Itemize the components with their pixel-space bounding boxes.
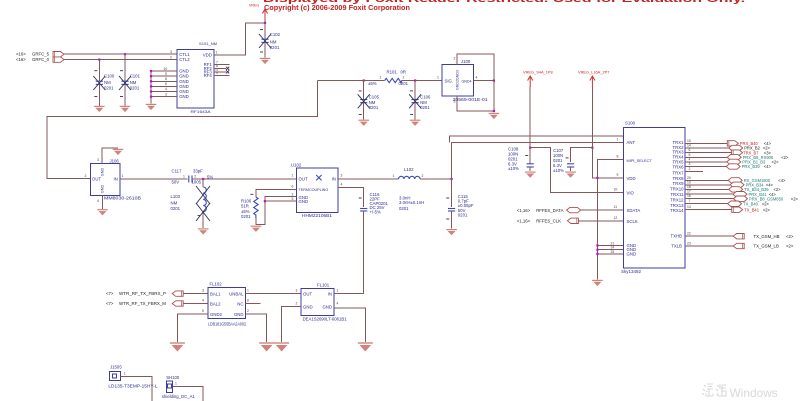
svg-text:<4>: <4> (778, 178, 786, 183)
power VREG_S4A_1P8 (523, 70, 553, 88)
svg-text:NM: NM (171, 200, 178, 205)
ground J106 pin3 (113, 149, 124, 155)
resistor R106 (241, 194, 258, 219)
svg-text:J1505: J1505 (110, 364, 122, 369)
wire FL102 UNBAL to FL101 (246, 293, 301, 295)
ground J106 pin4 (97, 210, 108, 216)
shield connector SH100 (162, 375, 196, 399)
wire GRFC_0 to CTL2 (64, 59, 177, 61)
svg-text:OUT: OUT (303, 292, 312, 297)
wire GRFC_5 to CTL1 (64, 53, 177, 55)
svg-text:3: 3 (454, 100, 456, 104)
capacitor C106 (409, 81, 431, 120)
svg-text:WTR_RF_TX_FBRX_M: WTR_RF_TX_FBRX_M (119, 301, 166, 306)
svg-text:SH100: SH100 (166, 375, 180, 380)
svg-text:TX_GSM_HB: TX_GSM_HB (754, 234, 780, 239)
svg-text:<2>: <2> (786, 234, 794, 239)
svg-text:GND: GND (322, 304, 332, 309)
svg-text:4: 4 (337, 301, 339, 305)
connector J100 (437, 56, 488, 103)
wire TRX10 / port TX_B34_B39 (685, 187, 781, 192)
port WTR_RF_TX_FBRX_P (106, 288, 208, 296)
power VREG (top, cut by watermark) (249, 4, 268, 24)
svg-text:1: 1 (247, 288, 249, 292)
svg-text:1: 1 (124, 372, 126, 376)
port RFFES_DATA (517, 207, 624, 213)
svg-text:4: 4 (476, 76, 478, 80)
wire FL102 NC stub (246, 303, 261, 305)
balun FL102 (202, 282, 249, 327)
filter FL101 (296, 282, 348, 321)
svg-text:0201: 0201 (171, 206, 181, 211)
svg-text:2: 2 (170, 55, 172, 59)
wire MIPI_SELECT jumper (597, 160, 623, 178)
svg-text:25: 25 (611, 250, 615, 254)
wire TRX8 / port RX_GSM1800 (685, 178, 786, 183)
svg-text:3.0nH±0.1nH: 3.0nH±0.1nH (399, 200, 424, 205)
svg-text:NM: NM (104, 80, 111, 85)
wire FL102 GND2 to ground (177, 314, 208, 342)
svg-text:R106: R106 (241, 198, 252, 203)
svg-text:±5%: ±5% (241, 209, 250, 214)
svg-text:<2>: <2> (786, 244, 794, 249)
node junction VDD/C102 (264, 22, 266, 24)
svg-text:IN: IN (328, 292, 332, 297)
svg-text:±10%: ±10% (508, 166, 519, 171)
svg-text:GND: GND (179, 94, 189, 99)
ground FL101 right GND (358, 343, 373, 352)
wire C115 junction up to ANT line (452, 143, 624, 179)
svg-text:NM: NM (270, 40, 277, 45)
svg-text:<2>: <2> (763, 207, 771, 212)
wire SH100 down (172, 387, 203, 401)
svg-text:Copyright (c) 2006-2009 Foxit: Copyright (c) 2006-2009 Foxit Corporatio… (264, 3, 410, 12)
svg-text:S101_NM: S101_NM (199, 41, 217, 46)
svg-text:C117: C117 (172, 168, 183, 173)
wire TRX1 / port PRX_B40 (685, 141, 771, 146)
svg-text:2: 2 (454, 56, 456, 60)
S100 TRX pin labels (670, 139, 691, 249)
svg-text:<16>: <16> (16, 57, 26, 62)
port RFFES_CLK (517, 218, 624, 224)
svg-text:3: 3 (97, 158, 99, 162)
wire FL101 left GND to ground (282, 307, 301, 343)
ground C107 (565, 172, 576, 178)
svg-text:SIG.: SIG. (445, 79, 454, 84)
connector J106 (85, 158, 142, 203)
resistor R101 chain: junction C105 (363, 79, 365, 81)
svg-text:PRX_B39: PRX_B39 (742, 164, 761, 169)
wire TXLB / port TX_GSM_LB (685, 243, 794, 248)
wire J100 pin4 (474, 80, 494, 82)
svg-text:RFFES_CLK: RFFES_CLK (536, 219, 561, 224)
svg-text:11: 11 (614, 205, 618, 209)
wire J106 pin4 stub (102, 195, 104, 209)
wire S101 RF3 stub with no-connect X (214, 70, 229, 73)
IC S100 Sky13492 (611, 121, 686, 275)
wire S101 RF1 stub (214, 64, 230, 66)
node junction L103 (202, 178, 204, 180)
ground C101 (120, 106, 131, 112)
svg-text:5: 5 (292, 197, 294, 201)
svg-text:3: 3 (165, 92, 167, 96)
svg-text:0201: 0201 (399, 81, 409, 86)
inductor L102 (338, 167, 452, 211)
svg-text:Windows: Windows (730, 386, 778, 400)
svg-text:13: 13 (687, 205, 691, 209)
wire S100 gnd bus (597, 178, 623, 280)
node gnd bus junctions (596, 244, 598, 255)
svg-text:1: 1 (393, 174, 395, 178)
wire TRX7 stub (685, 170, 703, 172)
svg-text:19: 19 (687, 180, 691, 184)
svg-text:3: 3 (689, 162, 691, 166)
svg-text:6: 6 (689, 148, 691, 152)
watermark: copyright line (264, 3, 410, 12)
svg-text:TRX11: TRX11 (670, 192, 684, 197)
capacitor C116 (359, 192, 389, 214)
svg-text:0201: 0201 (130, 86, 140, 91)
svg-text:TXHB: TXHB (671, 234, 683, 239)
wire TRX14 / port TX_B41 (685, 207, 771, 212)
svg-text:2: 2 (403, 76, 405, 80)
wire U102 pin4 to C116 (338, 187, 364, 206)
watermark: cut-off top line "Displayed by..." (263, 0, 745, 5)
wire TRX3 / port TRX_B7 (685, 150, 771, 155)
svg-text:SDATA: SDATA (627, 208, 641, 213)
svg-text:NM: NM (130, 80, 137, 85)
svg-text:ANT: ANT (627, 140, 636, 145)
svg-text:33pF: 33pF (193, 168, 203, 173)
node junction C100 on GRFC_0 (98, 59, 100, 61)
svg-text:WTR_RF_TX_FBRX_P: WTR_RF_TX_FBRX_P (119, 291, 166, 296)
svg-text:CTL2: CTL2 (179, 57, 190, 62)
svg-text:HHM22106B1: HHM22106B1 (302, 213, 333, 218)
svg-text:GRFC_5: GRFC_5 (32, 51, 50, 56)
wire TRX9 / port PRX_B34 (685, 182, 773, 187)
node junction C106 (414, 79, 416, 81)
svg-text:C105: C105 (369, 95, 380, 100)
wire R106 bottom / U102 gnd pins (256, 197, 297, 225)
svg-text:20: 20 (687, 176, 691, 180)
svg-text:3: 3 (170, 50, 172, 54)
svg-text:2: 2 (689, 167, 691, 171)
svg-text:8: 8 (617, 155, 619, 159)
wire TRX12 / port PRX_B8_GSM850 (685, 196, 798, 201)
wire C116 to FL101 IN (334, 211, 364, 293)
wire J1505 down (121, 376, 153, 401)
svg-text:GND: GND (100, 168, 104, 177)
svg-text:23: 23 (687, 242, 691, 246)
svg-text:R101: R101 (387, 69, 398, 74)
svg-text:14: 14 (687, 144, 691, 148)
svg-text:<2>: <2> (791, 196, 799, 201)
ground L103 (198, 229, 209, 235)
wire TRX2 / port PRX_B2 (685, 145, 771, 150)
svg-text:10: 10 (614, 188, 618, 192)
node junction J100 right (493, 80, 495, 82)
node junction U102 gnd (264, 200, 266, 202)
wire upper parallel line to S100 (449, 136, 623, 143)
svg-text:<2>: <2> (781, 155, 789, 160)
svg-text:6: 6 (247, 298, 249, 302)
svg-text:9: 9 (617, 173, 619, 177)
wire TXHB / port TX_GSM_HB (685, 234, 794, 239)
svg-text:J106: J106 (110, 159, 120, 164)
svg-text:4: 4 (97, 199, 99, 203)
wire FL102 GND to ground (246, 314, 267, 342)
svg-text:17: 17 (687, 190, 691, 194)
wire J106 IN to C117 (120, 178, 188, 180)
svg-text:<7>: <7> (106, 291, 114, 296)
svg-text:UNBAL: UNBAL (229, 292, 244, 297)
svg-text:TX_GSM_LB: TX_GSM_LB (754, 244, 779, 249)
svg-text:1: 1 (292, 174, 294, 178)
svg-text:TRX10: TRX10 (670, 187, 684, 192)
svg-text:GRFC_0: GRFC_0 (32, 57, 50, 62)
svg-text:4: 4 (165, 87, 167, 91)
svg-text:5: 5 (689, 153, 691, 157)
wire TRX11 / port PRX_B41 (685, 192, 776, 197)
svg-text:OUT: OUT (299, 177, 308, 182)
connector J1505 (108, 364, 158, 388)
svg-text:0201: 0201 (104, 86, 114, 91)
wire J100 pin3 loop (457, 81, 494, 111)
svg-text:15: 15 (687, 139, 691, 143)
svg-text:VREG_L16A_2P7: VREG_L16A_2P7 (578, 70, 609, 75)
ground J100 (489, 113, 500, 119)
wire S101 RF2 stub with no-connect X (214, 67, 229, 70)
svg-text:TERMCOUPLING: TERMCOUPLING (299, 188, 329, 192)
svg-text:1: 1 (337, 288, 339, 292)
svg-text:GND: GND (100, 185, 104, 194)
svg-text:NC: NC (237, 301, 243, 306)
svg-text:LD135-T3EMP-15HY-L: LD135-T3EMP-15HY-L (108, 384, 158, 389)
switch S101 (164, 41, 219, 114)
svg-text:22: 22 (687, 232, 691, 236)
node junction VREG_S4A (529, 147, 531, 149)
svg-text:Sky13492: Sky13492 (621, 269, 642, 274)
svg-text:TRX7: TRX7 (673, 171, 685, 176)
wire S101 GND bus (151, 71, 177, 103)
node GND bus junctions (150, 70, 152, 98)
svg-text:2: 2 (247, 309, 249, 313)
svg-text:0201: 0201 (270, 45, 280, 50)
capacitor C102 (259, 23, 281, 58)
wire TRX13 / port TX_B40 (685, 201, 770, 206)
svg-text:LDB181G55BAA2A002: LDB181G55BAA2A002 (208, 321, 247, 326)
capacitor C115 (446, 179, 474, 229)
wire VDD feed (592, 148, 623, 178)
svg-text:OUT: OUT (92, 177, 101, 182)
capacitor C107 (553, 148, 574, 173)
svg-text:TRX9: TRX9 (673, 181, 685, 186)
node junction VREG_L16A (591, 147, 593, 149)
svg-text:2: 2 (296, 301, 298, 305)
power VREG_L16A_2P7 (578, 70, 609, 88)
svg-text:0201: 0201 (420, 105, 430, 110)
svg-text:TX_B41: TX_B41 (744, 207, 760, 212)
svg-text:12: 12 (614, 216, 618, 220)
svg-text:6: 6 (292, 184, 294, 188)
svg-text:1: 1 (122, 174, 124, 178)
svg-text:0R: 0R (401, 69, 407, 74)
ground C108 (525, 172, 536, 178)
svg-text:2: 2 (85, 174, 87, 178)
svg-text:4: 4 (689, 157, 691, 161)
svg-text:1: 1 (437, 76, 439, 80)
svg-text:VREG: VREG (249, 4, 259, 8)
node junction C115 (451, 178, 453, 180)
svg-text:C101: C101 (130, 74, 141, 79)
svg-text:RF4: RF4 (204, 73, 213, 78)
svg-text:IN: IN (113, 177, 117, 182)
svg-text:<7>: <7> (106, 301, 114, 306)
ground FL102 GND2 (170, 343, 185, 352)
svg-text:0201: 0201 (369, 105, 379, 110)
svg-text:GND2: GND2 (210, 312, 223, 317)
capacitor C108 (508, 147, 534, 172)
svg-text:TXLB: TXLB (671, 244, 682, 249)
ground FL101 left GND (274, 343, 289, 352)
wire S101 RF4 stub (214, 74, 230, 76)
port GRFC_0 (16, 57, 64, 62)
wire J100 pin2 loop (457, 54, 494, 80)
svg-text:SCLK: SCLK (627, 219, 638, 224)
capacitor C101 (119, 54, 141, 106)
svg-text:±5%: ±5% (368, 81, 377, 86)
ground C100 (94, 106, 105, 112)
svg-text:5: 5 (165, 72, 167, 76)
svg-text:51R: 51R (241, 204, 249, 209)
svg-text:DEA1S2690LT-6061B1: DEA1S2690LT-6061B1 (303, 317, 348, 322)
svg-text:TX_B40: TX_B40 (743, 201, 759, 206)
wire FL101 right GND to ground (334, 308, 365, 342)
svg-text:GND: GND (234, 312, 244, 317)
svg-text:TRX14: TRX14 (670, 208, 684, 213)
coupler U102 (291, 162, 343, 218)
capacitor C105 (358, 81, 380, 120)
svg-text:4: 4 (202, 298, 204, 302)
wire TRX6 / port PRX_B39 (685, 164, 771, 169)
svg-text:50V: 50V (172, 179, 180, 184)
svg-text:2: 2 (292, 193, 294, 197)
ground C102 (260, 58, 271, 64)
wire TRX4 / port PRX_B8_RX900 (685, 155, 789, 160)
svg-text:MIPI_SELECT: MIPI_SELECT (627, 158, 653, 163)
wire VREG_S4A down (529, 87, 531, 148)
svg-text:0201: 0201 (241, 214, 251, 219)
svg-text:20569-001E-01: 20569-001E-01 (453, 97, 489, 102)
svg-text:7: 7 (689, 199, 691, 203)
svg-text:IN: IN (332, 177, 336, 182)
svg-text:<2>: <2> (762, 201, 770, 206)
svg-text:C100: C100 (104, 74, 115, 79)
svg-text:J100: J100 (461, 59, 471, 64)
svg-text:RFFES_DATA: RFFES_DATA (536, 208, 563, 213)
capacitor C117 (172, 168, 214, 184)
svg-text:2: 2 (194, 174, 196, 178)
svg-text:<1,16>: <1,16> (517, 219, 531, 224)
watermark: activate Windows (702, 384, 778, 400)
svg-text:RF1643A: RF1643A (191, 109, 211, 114)
svg-text:GND: GND (627, 251, 637, 256)
node junction J100 bottom (493, 110, 495, 112)
svg-text:VDD: VDD (627, 176, 636, 181)
svg-text:1: 1 (175, 381, 177, 385)
svg-text:TRX6: TRX6 (673, 165, 685, 170)
ground FL102 GND (259, 343, 274, 352)
svg-text:16: 16 (687, 194, 691, 198)
capacitor C100 (93, 60, 115, 106)
svg-text:±10%: ±10% (553, 168, 564, 173)
svg-text:GND4: GND4 (462, 79, 472, 83)
svg-text:1: 1 (216, 51, 218, 55)
svg-text:0201: 0201 (458, 212, 468, 217)
ground C115 (446, 230, 457, 236)
svg-text:1: 1 (380, 76, 382, 80)
svg-text:S100: S100 (625, 121, 636, 126)
svg-text:0201: 0201 (399, 206, 409, 211)
svg-text:CTL1: CTL1 (179, 52, 190, 57)
svg-text:<16>: <16> (16, 51, 26, 56)
svg-text:<1,16>: <1,16> (517, 208, 531, 213)
svg-text:1: 1 (183, 174, 185, 178)
ground R106 (251, 226, 262, 232)
svg-text:+/-5%: +/-5% (370, 210, 382, 215)
wire TRX5 / port PRX_B1_B3 (685, 159, 779, 164)
svg-text:C106: C106 (420, 95, 431, 100)
ground S101 (146, 104, 157, 110)
svg-text:BAL1: BAL1 (210, 292, 221, 297)
svg-text:L102: L102 (404, 167, 414, 172)
svg-text:shielding_DC_A1: shielding_DC_A1 (162, 394, 196, 399)
svg-text:10: 10 (164, 67, 168, 71)
svg-text:VREG_S4A_1P8: VREG_S4A_1P8 (523, 70, 553, 75)
wire C117 to U102 (192, 178, 297, 180)
svg-text:GND: GND (299, 199, 309, 204)
wire J106 pin3 loop (102, 148, 118, 164)
svg-text:3: 3 (341, 174, 343, 178)
svg-text:GND: GND (303, 304, 313, 309)
svg-text:C102: C102 (270, 32, 281, 37)
svg-text:1: 1 (617, 137, 619, 141)
node junction VDD jumper (596, 177, 598, 179)
svg-text:3: 3 (202, 288, 204, 292)
ground S100 (592, 280, 603, 286)
resistor R101 (368, 69, 409, 85)
svg-text:<2>: <2> (772, 160, 780, 165)
svg-text:3: 3 (296, 288, 298, 292)
svg-text:18: 18 (687, 185, 691, 189)
wire U102 pin6 to R106 (256, 190, 297, 198)
ground C106 (410, 120, 421, 126)
svg-text:L103: L103 (171, 194, 181, 199)
svg-text:VDD: VDD (203, 53, 212, 58)
svg-text:TRX13: TRX13 (670, 203, 684, 208)
port GRFC_5 (16, 51, 64, 57)
svg-text:4: 4 (341, 182, 343, 186)
svg-text:VIO: VIO (627, 191, 635, 196)
svg-text:8: 8 (165, 77, 167, 81)
port WTR_RF_TX_FBRX_M (106, 298, 208, 306)
svg-text:U102: U102 (291, 162, 302, 167)
svg-text:5: 5 (202, 309, 204, 313)
wire C107 feed (571, 148, 593, 162)
svg-text:<4>: <4> (764, 164, 772, 169)
svg-text:FL101: FL101 (317, 282, 330, 287)
inductor L103 (NM) (171, 179, 211, 228)
